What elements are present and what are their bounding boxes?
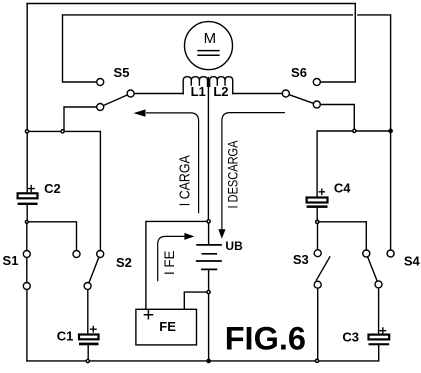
- arrowhead I CARGA: [134, 109, 146, 116]
- svg-text:M: M: [204, 30, 217, 47]
- wire S5 blade contact to L1: [134, 93, 183, 95]
- svg-text:C1: C1: [57, 329, 74, 344]
- switch S6 blade: [289, 95, 313, 104]
- capacitor C3: [369, 328, 390, 345]
- node S3 bottom rail: [315, 359, 318, 362]
- arrowhead I DESCARGA: [218, 229, 225, 239]
- FE plus sign: [144, 311, 152, 319]
- node battery bottom rail: [207, 359, 210, 362]
- switch S1 upper contact: [23, 251, 30, 258]
- arrow I DESCARGA: [222, 113, 284, 229]
- node S6 lower branch: [353, 129, 356, 132]
- wire battery minus to FE right terminal: [184, 292, 208, 309]
- motor U=M circle: [185, 22, 233, 70]
- wire junction to S3: [317, 222, 319, 250]
- svg-text:L2: L2: [213, 84, 228, 99]
- svg-text:S4: S4: [404, 253, 421, 268]
- wire S3 to bottom rail: [317, 288, 319, 361]
- wire left rail down to C2: [26, 4, 28, 194]
- switch S1 lower contact: [23, 283, 30, 290]
- svg-text:S2: S2: [116, 255, 132, 270]
- wire junction to S1: [26, 222, 28, 251]
- wire S2 to C1: [87, 290, 89, 335]
- inductor L2: [210, 77, 233, 94]
- switch S3 blade open: [316, 257, 330, 280]
- inductor L1: [183, 77, 207, 94]
- node C2 bottom: [25, 220, 28, 223]
- switch S1 blade: [26, 258, 28, 283]
- wire C4 riser handled above; capacitor C4: [307, 189, 328, 208]
- motor double bar: [198, 51, 219, 56]
- switch S5 upper contact: [97, 79, 104, 86]
- wire right junction rail C4 riser: [317, 131, 391, 197]
- contact mid-right: [363, 250, 370, 257]
- switch S5 lower contact: [97, 104, 104, 111]
- wire battery plus to FE plus: [146, 221, 209, 309]
- switch S6 lower contact: [313, 101, 320, 108]
- node C4 bottom: [316, 220, 319, 223]
- arrow I FE: [158, 236, 184, 280]
- switch S3 upper contact: [314, 250, 321, 257]
- switch S5 blade contact: [127, 90, 134, 97]
- node battery minus: [207, 291, 210, 294]
- switch S2 lower contact: [84, 283, 91, 290]
- node S5 lower branch: [61, 130, 64, 133]
- wire center tap to battery: [207, 78, 209, 222]
- wire C2 to lower-left junction: [26, 205, 28, 222]
- svg-text:S6: S6: [291, 65, 307, 80]
- wire C1 to bottom rail: [87, 345, 89, 361]
- wire left junction rail to S2: [27, 131, 100, 250]
- svg-text:S5: S5: [114, 65, 130, 80]
- wire junction to mid-right contact: [317, 222, 366, 250]
- switch S6 blade contact: [282, 90, 289, 97]
- battery UB plates: [197, 245, 221, 270]
- contact mid-left: [73, 251, 80, 258]
- FE box: [136, 309, 197, 345]
- node right rail: [389, 129, 392, 132]
- wire battery bottom: [208, 270, 210, 292]
- switch S6 upper contact: [313, 79, 320, 86]
- svg-text:C3: C3: [342, 329, 359, 344]
- switch S4 contact: [387, 250, 394, 257]
- wire top outer rail to S6 upper contact: [27, 4, 355, 83]
- wire S1 to bottom rail: [26, 290, 28, 361]
- switch S5 blade: [104, 95, 128, 106]
- switch S3 lower contact: [314, 281, 321, 288]
- node battery plus: [207, 220, 210, 223]
- svg-text:I CARGA: I CARGA: [177, 155, 193, 206]
- switch S2 upper contact: [97, 251, 104, 258]
- wire lower-left junction to mid contact: [27, 222, 77, 251]
- arrow I CARGA: [147, 113, 199, 213]
- wire battery minus to bottom rail: [208, 292, 210, 361]
- svg-text:S3: S3: [293, 252, 309, 267]
- capacitor C1: [79, 327, 99, 346]
- svg-text:FE: FE: [159, 319, 176, 334]
- svg-text:C4: C4: [334, 180, 351, 195]
- svg-text:FIG.6: FIG.6: [225, 320, 306, 356]
- wire inner top rail S5 upper contact to right rail: [63, 15, 391, 250]
- switch mid-right blade: [368, 257, 378, 281]
- switch S2 blade: [89, 257, 99, 283]
- capacitor C2: [18, 186, 38, 205]
- svg-text:L1: L1: [191, 84, 206, 99]
- wire mid-right contact to C3: [378, 288, 380, 335]
- wire L2 to S6 blade contact: [233, 93, 283, 95]
- wire bottom rail: [27, 345, 379, 361]
- wire battery top junction: [208, 221, 210, 244]
- wire S5 lower contact to left junction: [64, 107, 97, 131]
- svg-text:C2: C2: [44, 181, 61, 196]
- node left rail / junction row: [25, 130, 28, 133]
- wire S6 lower contact to right junction: [320, 105, 354, 131]
- svg-text:UB: UB: [225, 239, 243, 253]
- svg-text:I FE: I FE: [162, 251, 177, 276]
- wire C4 to right lower junction: [316, 208, 318, 222]
- node C1 bottom rail: [86, 359, 89, 362]
- arrowhead I FE: [184, 233, 194, 240]
- svg-text:I DESCARGA: I DESCARGA: [225, 140, 240, 208]
- svg-text:S1: S1: [3, 253, 19, 268]
- switch mid-right lower contact: [375, 281, 382, 288]
